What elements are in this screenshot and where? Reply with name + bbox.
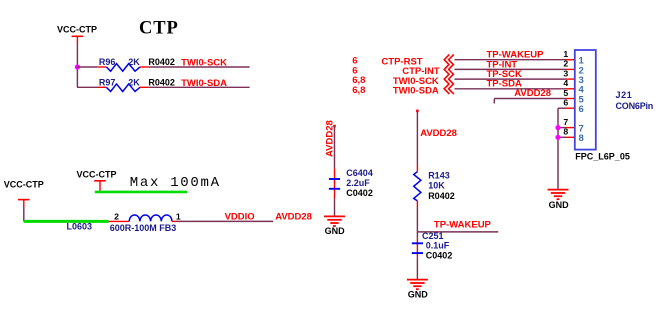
svg-text:J21: J21 xyxy=(616,90,633,100)
wire AVDD28 to R143 xyxy=(416,110,419,172)
svg-text:TWI0-SDA: TWI0-SDA xyxy=(393,86,439,97)
svg-text:3: 3 xyxy=(563,68,568,78)
off-page connector chevron row2 xyxy=(444,64,454,75)
highlight wire (green, under Max) xyxy=(95,191,187,194)
svg-text:GND: GND xyxy=(325,226,346,236)
svg-text:VCC-CTP: VCC-CTP xyxy=(77,169,117,179)
svg-text:TP-WAKEUP: TP-WAKEUP xyxy=(434,219,492,230)
ground GND (C251) xyxy=(407,280,428,300)
power symbol VCC-CTP (above Max 100mA) xyxy=(77,169,117,192)
wire green to FB3 xyxy=(109,220,130,222)
svg-text:AVDD28: AVDD28 xyxy=(514,88,551,99)
connector pin labels inside xyxy=(579,56,585,145)
svg-text:VCC-CTP: VCC-CTP xyxy=(4,180,44,190)
svg-text:600R-100M FB3: 600R-100M FB3 xyxy=(110,223,177,233)
ground GND (C6404) xyxy=(324,216,345,236)
svg-text:7: 7 xyxy=(563,117,568,127)
svg-text:6: 6 xyxy=(579,104,584,115)
capacitor C251 xyxy=(412,243,423,253)
wire C6404 to GND xyxy=(334,199,336,217)
off-page connector chevron row4 xyxy=(444,84,454,95)
svg-text:2: 2 xyxy=(563,59,568,69)
svg-text:8: 8 xyxy=(579,133,584,144)
junction at R96 row xyxy=(75,64,80,69)
wire pin3 xyxy=(455,78,576,80)
resistor R143 xyxy=(414,172,421,201)
wire C251 to GND xyxy=(416,257,418,279)
svg-text:1: 1 xyxy=(176,211,181,221)
svg-text:FPC_L6P_05: FPC_L6P_05 xyxy=(575,152,630,162)
svg-text:2.2uF: 2.2uF xyxy=(346,178,370,188)
svg-text:VCC-CTP: VCC-CTP xyxy=(57,25,97,35)
junction pin7 xyxy=(555,125,560,130)
svg-text:TWI0-SDA: TWI0-SDA xyxy=(181,78,227,89)
off-page connector chevron row1 xyxy=(444,54,454,65)
svg-text:R0402: R0402 xyxy=(428,191,455,201)
ground GND (connector) xyxy=(548,190,570,211)
wire R96 to TWI0-SCK xyxy=(140,66,250,68)
svg-text:TWI0-SCK: TWI0-SCK xyxy=(181,58,227,69)
wire pin7 xyxy=(558,127,575,129)
svg-text:R97: R97 xyxy=(99,77,116,87)
svg-text:10K: 10K xyxy=(428,181,445,191)
svg-text:AVDD28: AVDD28 xyxy=(420,128,457,139)
svg-text:CTP: CTP xyxy=(139,19,179,39)
svg-text:2K: 2K xyxy=(128,77,140,87)
resistor R97 xyxy=(106,84,140,92)
svg-text:C6404: C6404 xyxy=(346,168,373,178)
wire VCC-CTP vertical xyxy=(76,44,78,87)
wire junction to C251 xyxy=(416,239,418,257)
svg-text:6,8: 6,8 xyxy=(352,85,365,96)
svg-text:C0402: C0402 xyxy=(346,188,373,198)
svg-text:1: 1 xyxy=(563,49,568,59)
wire R143 to junction xyxy=(416,201,418,239)
wire R97 to TWI0-SDA xyxy=(140,86,250,88)
wire to R97 xyxy=(77,86,106,88)
svg-text:GND: GND xyxy=(549,200,570,210)
svg-text:R143: R143 xyxy=(428,170,450,180)
wire to R96 xyxy=(77,66,106,68)
ferrite bead FB3 coil xyxy=(129,215,172,221)
svg-text:R0402: R0402 xyxy=(148,78,175,88)
svg-text:AVDD28: AVDD28 xyxy=(275,212,312,223)
highlight wire (green, main) xyxy=(24,220,109,223)
power symbol VCC-CTP (top) xyxy=(57,25,97,44)
junction pin8 xyxy=(555,135,560,140)
wire pin2 xyxy=(455,68,576,70)
off-page refs page numbers xyxy=(352,56,365,96)
wire TP-WAKEUP xyxy=(417,231,498,233)
capacitor C6404 xyxy=(329,179,340,189)
svg-text:4: 4 xyxy=(563,78,568,88)
svg-text:6: 6 xyxy=(563,98,568,108)
svg-text:2: 2 xyxy=(114,211,119,221)
wire pin8 xyxy=(558,136,575,138)
wire AVDD28 to C6404 xyxy=(333,125,336,199)
svg-text:Max 100mA: Max 100mA xyxy=(130,175,221,191)
svg-text:C251: C251 xyxy=(422,231,444,241)
svg-text:L0603: L0603 xyxy=(67,222,93,232)
svg-text:GND: GND xyxy=(408,290,429,300)
svg-text:R96: R96 xyxy=(99,57,116,67)
wire pin5 xyxy=(494,99,575,104)
svg-text:8: 8 xyxy=(563,127,568,137)
svg-text:R0402: R0402 xyxy=(148,57,175,67)
wire pin4 xyxy=(455,88,576,90)
svg-text:CON6Pin: CON6Pin xyxy=(616,101,654,111)
wire pin6 to GND net xyxy=(558,108,575,189)
resistor R96 xyxy=(106,64,140,72)
wire pin1 xyxy=(455,59,576,61)
connector J21 body xyxy=(575,50,596,150)
wire FB3 to AVDD28 xyxy=(172,220,273,222)
svg-text:C0402: C0402 xyxy=(426,250,453,260)
svg-text:5: 5 xyxy=(563,88,568,98)
svg-text:VDDIO: VDDIO xyxy=(225,211,255,222)
svg-text:2K: 2K xyxy=(128,57,140,67)
svg-text:0.1uF: 0.1uF xyxy=(426,241,450,251)
power symbol VCC-CTP (bottom far left) xyxy=(4,180,44,222)
off-page connector chevron row3 xyxy=(444,74,454,85)
